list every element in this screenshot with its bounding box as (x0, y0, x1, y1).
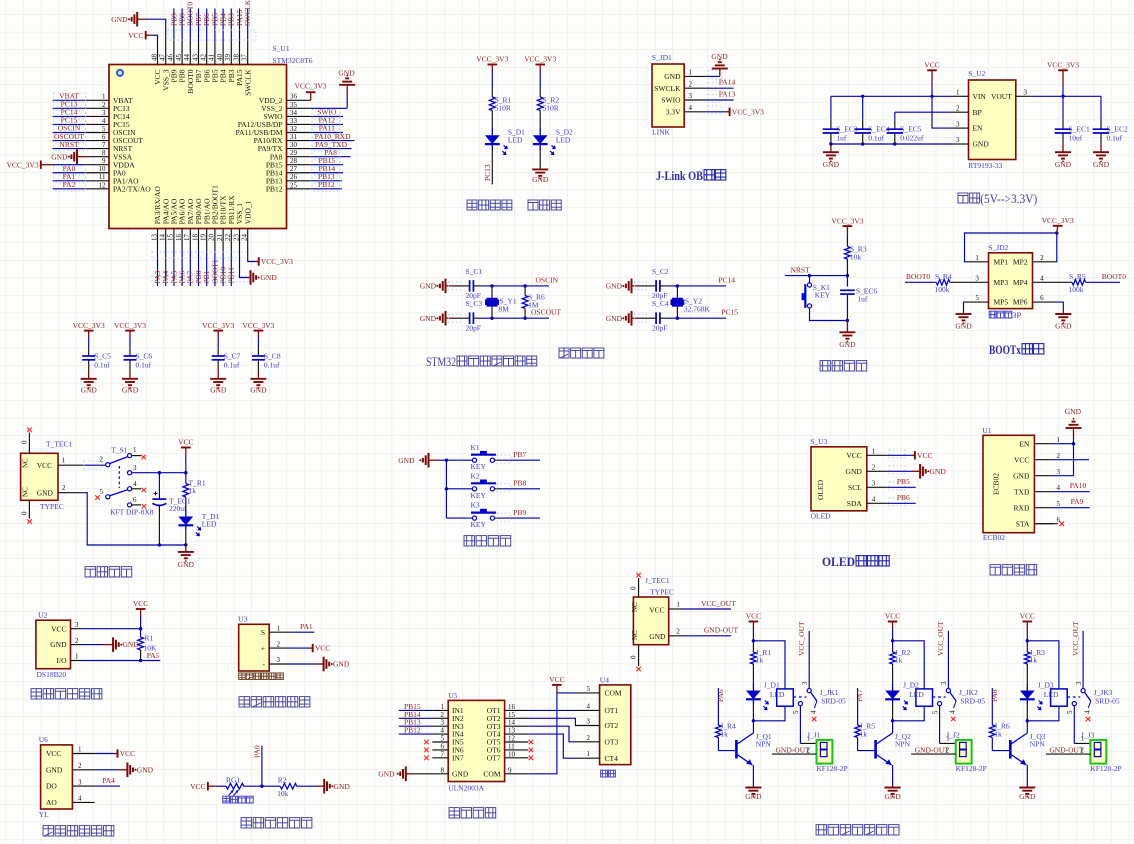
svg-text:VCC: VCC (315, 644, 330, 653)
svg-text:VCC: VCC (128, 31, 143, 40)
svg-text:20pF: 20pF (466, 323, 481, 332)
svg-text:6: 6 (102, 133, 106, 141)
switch contact 3 (128, 471, 132, 475)
pin 2 GND (58, 492, 83, 494)
wire net PA4 (bottom) (165, 251, 167, 287)
wire net NRST (785, 275, 848, 277)
svg-text:GND: GND (1065, 407, 1082, 416)
wire VCC to pin48 (151, 35, 158, 42)
svg-text:2: 2 (277, 640, 281, 648)
wire OT2 to U4 (528, 718, 576, 725)
wire GND rail (831, 143, 953, 145)
pin 3 SWIO (684, 99, 706, 101)
pin 30 PA9/TX (287, 148, 311, 150)
svg-text:VCC: VCC (549, 675, 564, 684)
svg-text:16: 16 (508, 703, 516, 711)
svg-text:ECB02: ECB02 (992, 473, 1001, 495)
svg-text:PB11: PB11 (227, 267, 236, 284)
pin 3 VOUT (1016, 95, 1031, 97)
svg-text:STM32C8T6: STM32C8T6 (273, 56, 313, 65)
svg-text:LED: LED (909, 690, 924, 699)
pin 2 GND (71, 644, 82, 646)
svg-text:PA10: PA10 (1070, 481, 1087, 490)
capacitor S_C3 20pF (460, 317, 470, 319)
ground (S_C1 side) (445, 279, 447, 294)
pin 1 VCC (72, 753, 94, 755)
module U1 ECB02 (983, 435, 1034, 532)
svg-text:VCC_3V3: VCC_3V3 (73, 321, 105, 330)
pin 43 PB7 (198, 42, 200, 65)
wire + ground (rain) (95, 769, 119, 771)
svg-text:48: 48 (150, 54, 158, 62)
wire net GND-OUT (relay) (1046, 753, 1091, 755)
svg-text:NC: NC (22, 458, 30, 468)
svg-text:32.768K: 32.768K (684, 305, 711, 314)
svg-text:S_C5: S_C5 (94, 352, 111, 361)
svg-text:OLED: OLED (822, 554, 855, 569)
svg-text:37: 37 (241, 54, 249, 62)
svg-text:GND: GND (1019, 792, 1036, 801)
svg-text:S_R4: S_R4 (935, 272, 952, 281)
svg-text:9: 9 (508, 766, 512, 774)
label 复位电路 (820, 361, 830, 371)
svg-text:VCC_OUT: VCC_OUT (936, 621, 945, 656)
svg-text:10k: 10k (277, 789, 289, 798)
svg-text:LINK: LINK (652, 128, 670, 137)
svg-text:4: 4 (133, 480, 137, 488)
wire net PB13 (311, 180, 342, 182)
svg-text:J_JK2: J_JK2 (959, 688, 978, 697)
svg-text:NRST: NRST (791, 265, 811, 274)
wire VCC to node (892, 629, 894, 641)
svg-text:VCC: VCC (924, 61, 939, 70)
wire + ground (soil -) (290, 663, 315, 665)
svg-text:S_JD2: S_JD2 (988, 243, 1008, 252)
svg-text:J_J1: J_J1 (807, 731, 821, 740)
pin 4 MP4 (1033, 281, 1056, 283)
svg-text:PA2/TX/AO: PA2/TX/AO (113, 184, 151, 193)
connector U4 排座 (600, 685, 631, 765)
svg-text:GND: GND (420, 314, 437, 323)
svg-text:YL: YL (39, 810, 49, 819)
wire (482, 285, 493, 287)
LED J_D3 (1020, 691, 1035, 700)
pin 1 IN1 (432, 709, 448, 711)
ground (relay 3) (1026, 786, 1028, 788)
svg-text:J_D1: J_D1 (764, 680, 780, 689)
capacitor S_EC1 10uf (1062, 96, 1064, 119)
svg-text:6: 6 (441, 742, 445, 750)
svg-text:VCC_OUT: VCC_OUT (701, 599, 736, 608)
ground at MCU pin 8 VSSA (77, 156, 85, 158)
svg-text:17: 17 (183, 234, 191, 242)
wire net PB9 (495, 517, 502, 519)
ground (key circuit) (428, 453, 430, 468)
wire net PB6 (888, 502, 916, 504)
capacitor S_EC3 1uf (830, 96, 832, 119)
wire net GND-OUT (relay) (772, 753, 817, 755)
svg-text:3: 3 (1075, 681, 1083, 685)
ground at MCU pin 35 VSS_2 (311, 107, 348, 109)
wire net PA9 (1053, 507, 1090, 509)
resistor J_R1 1k (752, 641, 754, 649)
svg-text:24: 24 (241, 234, 249, 242)
svg-text:12: 12 (99, 181, 107, 189)
svg-text:NC: NC (631, 630, 639, 640)
svg-text:1: 1 (441, 703, 445, 711)
svg-text:PB9: PB9 (513, 508, 526, 517)
wire net BOOT1 (bottom) (214, 251, 216, 287)
wire bus to K1 (446, 459, 472, 461)
wire EN (1053, 443, 1073, 445)
pin 4 OT1 (576, 709, 600, 711)
svg-text:GND: GND (664, 72, 681, 81)
label 电源电路 (85, 567, 95, 577)
label 光照采集电路 (241, 818, 251, 828)
pin 3 OT2 (576, 725, 600, 727)
svg-text:GND: GND (649, 632, 666, 641)
pin 19 PB1/AO (206, 229, 208, 251)
power port VCC (927, 69, 937, 71)
svg-text:11: 11 (508, 742, 515, 750)
wire VOUT rail (1030, 95, 1101, 97)
crystal S_Y1 8M (490, 284, 493, 287)
wire net OSCIN (53, 132, 85, 134)
wire bus to K3 (446, 517, 472, 519)
svg-text:NPN: NPN (756, 740, 772, 749)
wire loop pin1 to pin2 / VCC_3V3 (965, 233, 1057, 262)
pin 1 VIN (953, 95, 968, 97)
pin 31 PA10/RX (287, 140, 311, 142)
svg-text:VCC: VCC (885, 612, 900, 621)
svg-text:MP4: MP4 (1013, 278, 1028, 287)
svg-text:GND: GND (884, 792, 901, 801)
svg-text:T_TEC1: T_TEC1 (46, 440, 72, 449)
power port VCC (relay 2) (888, 621, 898, 623)
svg-text:23: 23 (232, 234, 240, 242)
svg-text:KFT DIP-8X8: KFT DIP-8X8 (110, 508, 154, 517)
label 温度采集模块 (31, 689, 41, 699)
svg-text:VCC_OUT: VCC_OUT (1071, 621, 1080, 656)
svg-text:1: 1 (78, 746, 82, 754)
svg-text:5: 5 (441, 735, 445, 743)
resistor S_R1 510R (491, 88, 493, 97)
svg-text:GND: GND (452, 769, 469, 778)
svg-text:2: 2 (1040, 254, 1044, 262)
svg-text:220uf: 220uf (169, 504, 187, 513)
pin 23 VSS_1 (239, 229, 241, 251)
regulator S_U2 RT9193-33 (969, 80, 1016, 160)
pin 14 PA4/AO (165, 229, 167, 251)
relay switch J_JK3 SRD-05 (1082, 631, 1084, 689)
svg-text:3: 3 (441, 719, 445, 727)
wire net PB1 (bottom) (206, 251, 208, 287)
ground (1062, 144, 1064, 153)
power port VCC_3V3 at MCU pin 24 VDD_1 (248, 251, 255, 262)
svg-text:S_C1: S_C1 (466, 267, 483, 276)
svg-text:11: 11 (99, 173, 106, 181)
pin 46 PB9 (173, 42, 175, 65)
wire net PB4 (top) (222, 9, 224, 43)
svg-text:6: 6 (133, 496, 137, 504)
svg-text:BP: BP (973, 108, 982, 117)
capacitor S_C8 0.1uf (257, 337, 259, 348)
pin 3 IN3 (432, 725, 448, 727)
svg-text:1uf: 1uf (836, 134, 847, 143)
svg-text:45: 45 (175, 54, 183, 62)
wire pin6 to gnd (1056, 302, 1063, 312)
no-connect (relay NC pin) (954, 701, 957, 708)
svg-text:VCC: VCC (190, 782, 205, 791)
ground (pin5) (963, 313, 965, 315)
svg-text:S_U1: S_U1 (273, 44, 290, 53)
wire net PB7 (495, 459, 502, 461)
pin 7 NRST (85, 148, 109, 150)
svg-text:1: 1 (277, 624, 281, 632)
svg-text:7: 7 (441, 750, 445, 758)
svg-text:GND: GND (51, 152, 68, 161)
svg-text:4: 4 (102, 117, 106, 125)
svg-text:GND: GND (137, 765, 154, 774)
svg-text:U6: U6 (39, 735, 48, 744)
label 步进电机 (449, 808, 459, 818)
svg-text:5: 5 (975, 294, 979, 302)
label 电源灯 (528, 200, 538, 210)
LED S_D2 (533, 135, 548, 144)
ground (power circuit) (185, 545, 187, 552)
svg-text:VCC_3V3: VCC_3V3 (294, 82, 326, 91)
pin 28 PB15 (287, 164, 311, 166)
power port VCC_3V3 (reset) (843, 225, 853, 227)
svg-text:4: 4 (441, 727, 445, 735)
svg-text:510R: 510R (495, 103, 511, 112)
wire VCC to VIN rail (931, 84, 933, 96)
svg-text:2: 2 (1057, 452, 1061, 460)
svg-text:VCC_3V3: VCC_3V3 (202, 321, 234, 330)
capacitor S_EC5 0.022uf (894, 112, 896, 119)
wire net PA0 (riser) (261, 746, 263, 787)
svg-text:GND: GND (338, 69, 355, 78)
wire + power port VCC (soil +) (290, 647, 310, 649)
pin 1 I/O (71, 660, 82, 662)
wire net PA15 (top) (239, 9, 241, 43)
wire net PA1 (290, 631, 315, 633)
ground (relay 1) (752, 786, 754, 788)
capacitor S_C6 0.1uf (129, 337, 131, 348)
svg-text:10k: 10k (850, 252, 862, 261)
svg-text:OLED: OLED (816, 479, 825, 500)
pin 11 PA1/AO (85, 180, 109, 182)
svg-text:NC: NC (631, 602, 639, 612)
svg-text:AO: AO (46, 798, 57, 807)
pin 41 PB5 (214, 42, 216, 65)
svg-text:GND: GND (532, 175, 549, 184)
svg-text:10: 10 (99, 165, 107, 173)
svg-text:BOOT0: BOOT0 (1102, 272, 1126, 281)
wire net SWCLK (top) (247, 9, 249, 43)
svg-text:VCC: VCC (1014, 455, 1029, 464)
resistor S_R2 510R (539, 88, 541, 97)
svg-text:14: 14 (159, 234, 167, 242)
wire net PC13 (491, 144, 493, 151)
switch dashed link (118, 466, 120, 488)
resistor S_R5 100k (1072, 279, 1086, 285)
svg-text:VCC_3V3: VCC_3V3 (524, 55, 556, 64)
wire emitter to gnd (892, 765, 894, 786)
pin STA no-connect (1034, 523, 1058, 525)
svg-text:1k: 1k (895, 656, 903, 665)
svg-text:7: 7 (102, 141, 106, 149)
wire net PA1 (53, 180, 85, 182)
pin 34 SWIO (287, 115, 311, 117)
svg-text:4: 4 (809, 710, 817, 714)
svg-text:0: 0 (630, 655, 638, 659)
wire net PB14 (311, 172, 343, 174)
pin 14 OT3 (505, 725, 529, 727)
svg-text:VCC_OUT: VCC_OUT (797, 621, 806, 656)
pin 5 RXD (1034, 507, 1053, 509)
svg-text:0.1uf: 0.1uf (1107, 134, 1123, 143)
svg-text:20pF: 20pF (652, 323, 667, 332)
svg-text:PB6: PB6 (897, 493, 910, 502)
wire net PA0 (53, 172, 85, 174)
svg-text:VCC: VCC (917, 451, 932, 460)
wire net BOOT0 (top) (189, 9, 191, 43)
svg-text:STA: STA (1016, 519, 1030, 528)
pin 0 (top) (638, 578, 640, 597)
svg-text:GND: GND (261, 273, 278, 282)
svg-text:VCC_3V3: VCC_3V3 (831, 216, 863, 225)
svg-text:J_J3: J_J3 (1081, 731, 1095, 740)
svg-text:NC: NC (22, 487, 30, 497)
pin 3 SCL (867, 486, 888, 488)
label 土壤湿度检测 (239, 697, 249, 707)
wire VCC stem (185, 455, 187, 473)
svg-text:T_S1: T_S1 (111, 445, 128, 454)
svg-text:2: 2 (956, 104, 960, 112)
svg-text:MP1: MP1 (994, 257, 1009, 266)
pin 1 VCC (58, 464, 83, 466)
svg-text:VIN: VIN (973, 92, 987, 101)
transistor J_Q1 NPN (752, 721, 754, 733)
pin 8 VSSA (85, 156, 109, 158)
svg-text:6: 6 (1057, 516, 1061, 524)
pin 3 VCC (71, 628, 82, 630)
svg-text:VCC_3V3: VCC_3V3 (476, 55, 508, 64)
svg-text:KEY: KEY (815, 291, 831, 300)
svg-text:510R: 510R (543, 103, 559, 112)
capacitor S_EC4 0.1uf (862, 96, 864, 119)
pin 16 OT1 (505, 709, 529, 711)
wire R4 to pin3 (950, 281, 966, 283)
switch lever 2-1 (110, 457, 128, 464)
pin 5 IN5 (432, 741, 448, 743)
svg-text:J_JK3: J_JK3 (1094, 688, 1113, 697)
pin 1 MP1 (966, 261, 989, 263)
svg-text:KEY: KEY (471, 520, 487, 529)
switch contact 1 (128, 454, 132, 458)
pin 1 VCC (867, 454, 888, 456)
capacitor T_EC1 220uf (polarized) (158, 473, 160, 497)
svg-text:PA0: PA0 (253, 745, 262, 758)
power port VCC_3V3 (S_R1 branch) (488, 64, 498, 66)
pin 45 PB8 (181, 42, 183, 65)
pin 4 IN4 (432, 733, 448, 735)
svg-text:U2: U2 (38, 611, 47, 620)
wire net PB3 (top) (230, 9, 232, 43)
svg-text:SWCLK: SWCLK (243, 0, 252, 26)
wire net PB8 (495, 488, 502, 490)
power port VCC_3V3 (S_R2 branch) (535, 64, 545, 66)
wire VCC row (81, 628, 141, 630)
resistor S_R4 100k (936, 279, 950, 285)
svg-text:38: 38 (232, 54, 240, 62)
pin 21 PB10/TX (222, 229, 224, 251)
LED J_D2 (885, 691, 900, 700)
svg-text:GND: GND (122, 386, 139, 395)
wire VCC to RG1 (208, 785, 216, 787)
wire R2 to gnd (297, 785, 315, 787)
svg-text:15: 15 (167, 234, 175, 242)
svg-text:2: 2 (62, 484, 66, 492)
svg-text:1: 1 (102, 93, 106, 101)
svg-text:ULN2003A: ULN2003A (448, 784, 484, 793)
resistor J_R2 1k (892, 641, 894, 649)
wire key bus vertical (445, 460, 447, 518)
svg-text:TYPEC: TYPEC (650, 588, 674, 597)
label 光敏电阻 (223, 796, 230, 803)
svg-text:1k: 1k (860, 730, 868, 739)
svg-text:0: 0 (630, 586, 638, 590)
svg-text:S_U2: S_U2 (968, 69, 985, 78)
module U6 YL rain sensor (41, 745, 73, 809)
wire net PB10 (bottom) (222, 251, 224, 287)
ground (pin6) (1062, 313, 1064, 315)
svg-text:43: 43 (191, 54, 199, 62)
wire net PB15 (399, 709, 433, 711)
ground (S_C2 side) (631, 279, 633, 294)
switch lever 5-4 (110, 490, 128, 496)
wire pin4 to R5 (1056, 281, 1072, 283)
capacitor S_EC2 0.1uf (1100, 96, 1102, 119)
pin 15 PA5/AO (173, 229, 175, 251)
pin 1 / wire net VCC_OUT (669, 608, 681, 610)
svg-text:MP5: MP5 (994, 298, 1009, 307)
svg-text:3: 3 (78, 778, 82, 786)
wire net PB9 (top) (173, 9, 175, 43)
svg-text:KEY: KEY (471, 462, 487, 471)
svg-text:TXD: TXD (1014, 487, 1030, 496)
svg-text:CT4: CT4 (605, 754, 619, 763)
pin 4 PC15 (85, 123, 109, 125)
svg-text:OT3: OT3 (605, 737, 619, 746)
svg-text:0.1uf: 0.1uf (224, 361, 240, 370)
svg-text:STM32: STM32 (426, 355, 456, 369)
wire net GND-OUT (relay) (911, 753, 956, 755)
pin 2 / wire net GND-OUT (669, 635, 681, 637)
svg-text:0.022uf: 0.022uf (900, 134, 924, 143)
svg-text:KEY: KEY (471, 491, 487, 500)
svg-text:GND: GND (606, 282, 623, 291)
svg-text:MP2: MP2 (1013, 257, 1028, 266)
pin 26 PB13 (287, 180, 311, 182)
svg-text:DS18B20: DS18B20 (37, 670, 67, 679)
wire net PA3 (bottom) (157, 251, 159, 287)
label 蓝牙模块 (990, 565, 1000, 575)
wire + power port VCC (OLED pin1) (888, 454, 912, 456)
LED T_D1 (178, 517, 193, 526)
svg-text:GND: GND (111, 15, 128, 24)
